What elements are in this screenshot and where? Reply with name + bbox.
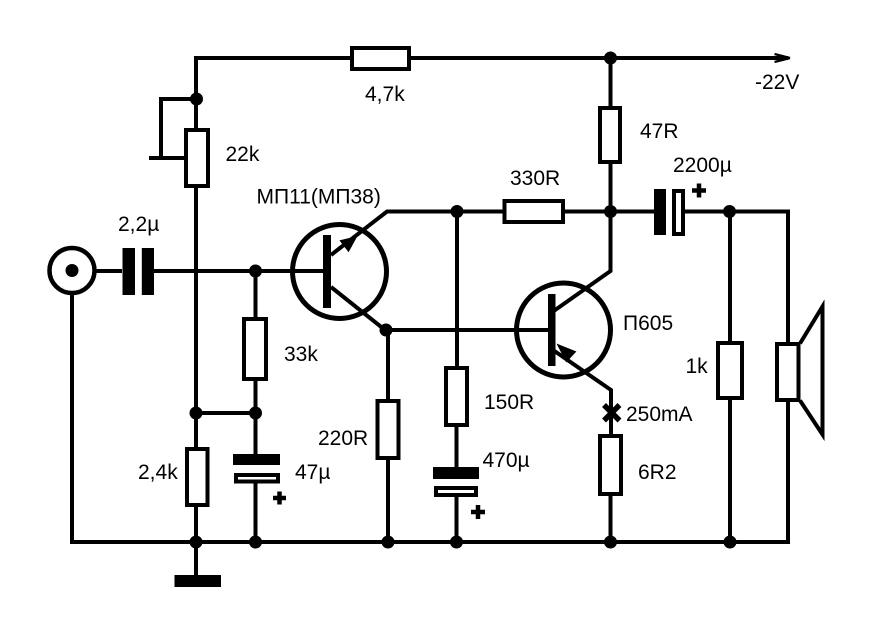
junction dot collector node / 220R [380,324,393,337]
trimmer resistor 22k body [186,130,208,186]
transistor VT1 emitter diagonal [331,212,503,256]
svg-text:250mA: 250mA [626,403,693,426]
input connector center pin [66,264,79,277]
wire: 150R top lead from node [455,212,459,369]
svg-text:47R: 47R [640,120,679,143]
junction dot base node / 33k [249,265,262,278]
svg-text:4,7k: 4,7k [365,83,405,106]
wire: 47µ bottom lead [254,481,258,542]
speaker cone [800,307,823,435]
resistor 6R2 body [600,436,621,494]
polarity plus of 2200µ [692,184,706,198]
junction dot 330R/47R/2200µ node [604,205,617,218]
wire: 47R top lead [609,58,613,108]
junction dot rail/1k [724,536,737,549]
wire: output cap to speaker with corner [685,212,788,343]
junction dot rail/2,4k [190,536,203,549]
svg-text:П605: П605 [623,312,673,335]
svg-text:1k: 1k [686,355,709,378]
wire: 6R2 bottom lead [609,494,613,542]
capacitor 470µ plate 2 [436,488,476,495]
wire: 2,4k bottom lead [194,505,198,542]
resistor 150R body [446,368,467,425]
speaker magnet body [777,344,799,400]
wire: top supply rail left segment with corner down to trimmer junction [196,58,350,99]
svg-text:6R2: 6R2 [638,461,677,484]
junction dot rail/470µ [450,536,463,549]
polarity plus of 47µ [273,492,286,505]
polarity plus of 470µ [471,505,485,519]
junction dot bias node left [190,407,203,420]
svg-text:150R: 150R [484,391,534,414]
junction dot rail/47µ [249,536,262,549]
svg-text:2200µ: 2200µ [673,154,732,177]
wire: 2,4k top lead [194,413,198,449]
transistor VT1 emitter arrow [339,236,357,252]
transistor VT1 base bar [323,235,331,308]
svg-text:2,4k: 2,4k [138,461,178,484]
svg-text:33k: 33k [284,343,318,366]
wire: bottom ground rail [70,540,790,544]
capacitor 47µ plate 2 [236,475,278,482]
capacitor 2,2µ plate 1 [123,248,136,295]
svg-text:220R: 220R [318,427,368,450]
junction dot rail/47R [604,52,617,65]
capacitor 2200µ plate 1 [654,189,666,235]
junction dot rail/6R2 [604,536,617,549]
wire: 220R bottom lead [386,458,390,542]
wire: ground stub [194,542,198,575]
wire: top supply rail right segment [411,56,788,60]
svg-text:МП11(МП38): МП11(МП38) [257,186,381,209]
wire: 1k bottom lead [728,398,732,542]
wire: 22k bottom lead down to bias node [194,186,198,413]
wire: cap to base of VT1 [154,269,324,273]
input connector X1 [50,248,95,293]
wire: connector shell down to ground rail [70,293,74,542]
transistor VT2 emitter arrow [557,344,577,363]
transistor VT1 МП11 circle [293,225,387,319]
resistor 330R body [505,201,564,222]
wire: 150R bottom lead [455,425,459,467]
ground symbol bar [175,575,222,587]
wire: 33k bottom lead [254,379,258,413]
resistor 1k body [718,343,742,398]
wire: 22k top lead [194,99,198,130]
junction dot output node / 1k [723,205,736,218]
resistor 220R body [378,401,399,458]
trimmer wiper hook of 22k [149,99,196,158]
wire: speaker bottom lead [786,402,790,542]
resistor 47R body [600,108,620,162]
junction dot trimmer/rail [190,93,203,106]
wire: 47R bottom lead [609,162,613,212]
wire: 33k top lead [254,271,258,319]
wire: 470µ bottom lead [455,494,459,542]
svg-text:-22V: -22V [755,71,799,94]
current break mark X 250mA [604,405,620,421]
wire: 330R right lead [565,210,610,214]
wire: node to output cap [611,210,655,214]
transistor VT1 collector diagonal [331,287,385,330]
wire: VT1 collector to VT2 base [385,328,551,332]
junction dot emitter rail / 330R / 150R [451,205,464,218]
svg-text:470µ: 470µ [483,449,530,472]
capacitor 470µ plate 1 [433,467,479,479]
resistor 33k body [244,319,266,379]
wire: VT2 collector diagonal up to node [553,212,611,312]
wire: connector to coupling cap [94,269,122,273]
wire: 47µ top lead [254,413,258,454]
junction dot rail/220R [382,536,395,549]
power arrow head -22V [775,54,791,62]
svg-text:22k: 22k [226,143,260,166]
wire: VT2 emitter diagonal down to fuse point [553,350,611,435]
junction dot bias node right [249,407,262,420]
transistor VT2 base bar [548,294,556,366]
svg-text:330R: 330R [510,167,560,190]
wire: 220R top lead [386,330,390,401]
svg-text:47µ: 47µ [295,461,330,484]
wire: bias node link [196,411,256,415]
capacitor 47µ plate 1 [233,454,280,465]
wire: 1k top lead [728,212,732,344]
capacitor 2,2µ plate 2 [142,248,154,295]
svg-text:2,2µ: 2,2µ [118,213,159,236]
resistor 4,7k body [352,48,409,69]
transistor VT2 П605 circle [517,283,611,377]
capacitor 2200µ plate 2 [674,191,683,234]
resistor 2,4k body [187,449,208,505]
